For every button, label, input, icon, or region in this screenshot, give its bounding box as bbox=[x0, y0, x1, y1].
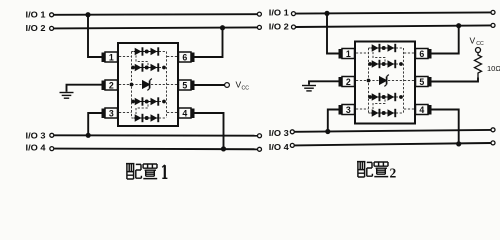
svg-text:I/O 2: I/O 2 bbox=[26, 24, 47, 33]
svg-text:I/O 1: I/O 1 bbox=[269, 9, 290, 18]
IC package U1 outline bbox=[118, 43, 178, 126]
terminal Vcc cfg2 bbox=[476, 48, 481, 53]
svg-text:I/O 2: I/O 2 bbox=[269, 23, 290, 32]
wire I/O1 down to pin 1 cfg2 bbox=[327, 13, 339, 53]
junction I/O4 to pin4 cfg2 bbox=[456, 141, 461, 146]
terminal I/O3 right end cfg1 bbox=[258, 134, 262, 138]
terminal I/O4 left bbox=[50, 147, 54, 151]
terminal I/O1 left bbox=[50, 13, 54, 17]
pin 5 box bbox=[179, 80, 192, 90]
junction I/O4 to pin4 bbox=[221, 146, 226, 151]
pin 3 lead bar cfg2 bbox=[339, 105, 343, 115]
svg-text:5: 5 bbox=[182, 80, 187, 90]
wire pin5 to resistor cfg2 bbox=[431, 78, 478, 82]
svg-text:I/O 3: I/O 3 bbox=[269, 129, 290, 138]
terminal I/O3 left bbox=[50, 133, 54, 137]
terminal I/O1 right end cfg1 bbox=[257, 12, 261, 16]
junction I/O3 to pin3 bbox=[86, 133, 91, 138]
svg-text:5: 5 bbox=[419, 77, 424, 87]
terminal I/O1 cfg2 left bbox=[291, 12, 295, 16]
pin 3 box bbox=[105, 108, 118, 118]
wire I/O2 rail bbox=[54, 27, 257, 28]
pin 4 box cfg2 bbox=[416, 105, 429, 115]
diode pair D5-D6 (row 4) bbox=[131, 97, 166, 105]
wire I/O3 up to pin 3 bbox=[88, 113, 101, 135]
svg-text:1: 1 bbox=[346, 49, 351, 59]
terminal I/O4 right end cfg2 bbox=[491, 141, 495, 145]
junction I/O1 to pin1 cfg2 bbox=[324, 11, 329, 16]
pin 4 lead bar bbox=[191, 109, 195, 119]
caption 配置 2 bbox=[357, 162, 388, 177]
caption 配置 1 bbox=[126, 164, 157, 179]
wire I/O1 rail cfg2 bbox=[296, 12, 491, 13]
diode pair D5-D6 cfg2 (row 4) bbox=[368, 93, 403, 101]
diode pair D1-D2 cfg2 (row 1) bbox=[371, 44, 396, 52]
pin 4 box bbox=[179, 108, 192, 118]
IC package U2 outline bbox=[355, 42, 415, 124]
label Vcc cfg1 bbox=[236, 80, 250, 92]
wire I/O1 rail bbox=[54, 13, 257, 16]
pin 6 box bbox=[179, 52, 192, 62]
svg-text:10Ω: 10Ω bbox=[487, 64, 500, 73]
wire pin2 to ground bbox=[67, 85, 102, 92]
pin 2 lead bar cfg2 bbox=[339, 77, 343, 87]
wire I/O4 up to pin 4 bbox=[195, 113, 224, 149]
wire I/O2 down to pin 6 bbox=[195, 28, 223, 57]
wire I/O3 up to pin 3 cfg2 bbox=[328, 110, 339, 132]
resistor R1 10 ohm bbox=[475, 53, 482, 78]
wire I/O2 rail cfg2 bbox=[296, 25, 491, 27]
pin 2 lead bar bbox=[102, 81, 106, 91]
pin 6 box cfg2 bbox=[416, 49, 429, 59]
terminal I/O3 right end cfg2 bbox=[491, 128, 495, 132]
terminal I/O2 right end cfg1 bbox=[257, 25, 261, 29]
svg-text:4: 4 bbox=[182, 108, 187, 118]
pin 2 box bbox=[105, 80, 118, 90]
wire I/O4 rail bbox=[54, 148, 257, 151]
svg-text:6: 6 bbox=[419, 49, 424, 59]
zener TVS Z1 cfg2 (row 3) bbox=[367, 75, 389, 87]
pin 6 lead bar cfg2 bbox=[428, 49, 432, 59]
diode pair D3-D4 cfg2 (row 2) bbox=[368, 60, 403, 68]
ground symbol cfg2 bbox=[302, 86, 316, 91]
svg-text:3: 3 bbox=[109, 108, 114, 118]
pin 5 lead bar cfg2 bbox=[428, 77, 432, 87]
pin 2 box cfg2 bbox=[342, 77, 355, 87]
pin 1 lead bar bbox=[102, 53, 106, 63]
diode pair D3-D4 (row 2) bbox=[131, 63, 166, 71]
terminal I/O3 cfg2 left bbox=[290, 130, 294, 134]
pin 1 lead bar cfg2 bbox=[339, 49, 343, 59]
svg-text:1: 1 bbox=[109, 52, 114, 62]
pin 3 box cfg2 bbox=[342, 105, 355, 115]
svg-text:I/O 4: I/O 4 bbox=[269, 143, 290, 152]
wire I/O3 rail bbox=[54, 134, 257, 136]
svg-text:CC: CC bbox=[476, 41, 484, 47]
wire pin2 to ground cfg2 bbox=[309, 81, 339, 85]
terminal I/O2 right end cfg2 bbox=[491, 23, 495, 27]
pin 1 box cfg2 bbox=[342, 49, 355, 59]
ground symbol cfg1 bbox=[60, 93, 74, 99]
terminal I/O2 cfg2 left bbox=[292, 25, 296, 29]
pin 1 box bbox=[105, 52, 118, 62]
diode pair D1-D2 (row 1) bbox=[134, 47, 159, 55]
terminal I/O2 left bbox=[50, 26, 54, 30]
junction I/O3 to pin3 cfg2 bbox=[325, 129, 330, 134]
diode pair D7-D8 (row 5) bbox=[134, 114, 159, 122]
terminal I/O1 right end cfg2 bbox=[491, 10, 495, 14]
svg-text:I/O 3: I/O 3 bbox=[26, 131, 47, 140]
svg-text:2: 2 bbox=[109, 80, 114, 90]
svg-text:4: 4 bbox=[419, 105, 424, 115]
junction I/O2 to pin6 bbox=[220, 25, 225, 30]
pin 6 lead bar bbox=[191, 53, 195, 63]
terminal I/O4 cfg2 left bbox=[290, 143, 294, 147]
svg-text:I/O 4: I/O 4 bbox=[26, 143, 47, 152]
pin 3 lead bar bbox=[102, 109, 106, 119]
wire I/O3 rail cfg2 bbox=[295, 130, 491, 132]
terminal Vcc cfg1 bbox=[225, 83, 230, 88]
junction I/O1 to pin1 bbox=[85, 12, 90, 17]
wire I/O4 rail cfg2 bbox=[295, 143, 491, 145]
svg-text:3: 3 bbox=[346, 105, 351, 115]
wire pin5 to Vcc bbox=[195, 84, 225, 86]
svg-text:6: 6 bbox=[182, 52, 187, 62]
caption number 1 bbox=[162, 165, 167, 179]
wire I/O1 down to pin 1 bbox=[88, 15, 102, 57]
pin 4 lead bar cfg2 bbox=[428, 105, 432, 115]
wire I/O2 down to pin 6 cfg2 bbox=[431, 26, 459, 54]
label Vcc cfg2 bbox=[470, 36, 485, 47]
internal dashed wiring cfg2 bbox=[356, 48, 414, 113]
internal dashed wiring cfg1 bbox=[119, 52, 177, 119]
wire I/O4 up to pin 4 cfg2 bbox=[431, 110, 459, 144]
svg-text:CC: CC bbox=[242, 85, 250, 91]
svg-text:V: V bbox=[470, 36, 476, 46]
svg-text:2: 2 bbox=[346, 77, 351, 87]
svg-text:2: 2 bbox=[390, 166, 397, 181]
svg-text:I/O 1: I/O 1 bbox=[26, 11, 47, 20]
diode pair D7-D8 cfg2 (row 5) bbox=[371, 109, 396, 117]
zener TVS Z1 (row 3) bbox=[130, 79, 152, 91]
pin 5 box cfg2 bbox=[416, 77, 429, 87]
junction I/O2 to pin6 cfg2 bbox=[456, 23, 461, 28]
pin 5 lead bar bbox=[191, 81, 195, 91]
terminal I/O4 right end cfg1 bbox=[258, 147, 262, 151]
